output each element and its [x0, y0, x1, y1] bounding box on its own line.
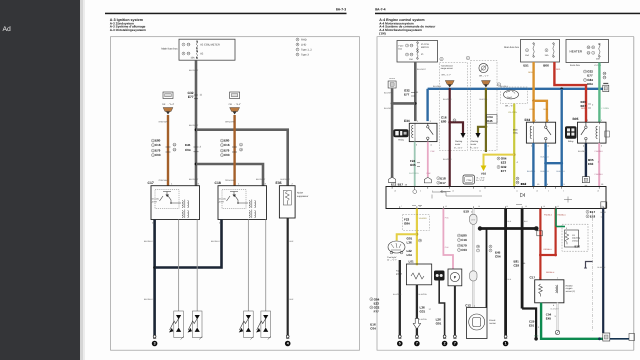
relay E34 [404, 119, 437, 146]
ignition coil C17 [148, 181, 200, 224]
dashed group box (sensor 2) [471, 61, 498, 151]
svg-text:Starting: Starting [471, 140, 479, 143]
node orange junction [532, 99, 535, 102]
svg-text:16: 16 [452, 190, 454, 193]
svg-text:“Fuel tight”: “Fuel tight” [387, 256, 397, 259]
svg-text:IG: IG [201, 53, 204, 56]
left page header rule [105, 13, 347, 15]
main fuse box (left page) [161, 39, 235, 60]
wire RED link [540, 254, 555, 256]
svg-text:20A: 20A [596, 57, 600, 60]
wire ORN/WHT to C18 [233, 115, 235, 186]
connector label C16/E80 [441, 116, 456, 124]
svg-text:E77: E77 [188, 95, 194, 99]
svg-text:Knock: Knock [489, 319, 496, 322]
svg-text:RED/BLU: RED/BLU [558, 214, 567, 217]
wire PNK E34 to ECM [427, 142, 429, 177]
svg-text:LT GRN: LT GRN [602, 107, 610, 110]
svg-text:7: 7 [401, 205, 402, 208]
wire ORN branch to E63 pin3 [534, 101, 547, 122]
connector (trans range sensor) [445, 81, 454, 88]
svg-text:E79: E79 [155, 149, 161, 153]
svg-text:CO: CO [572, 234, 575, 237]
svg-text:BLK/BLU: BLK/BLU [541, 170, 550, 173]
svg-text:COM: COM [466, 179, 471, 182]
svg-text:BLK/RED: BLK/RED [443, 158, 452, 161]
ECM connector pin (PNK) [424, 177, 431, 183]
svg-text:C17: C17 [148, 181, 154, 185]
svg-text:IG COIL METER: IG COIL METER [201, 44, 220, 47]
svg-text:BLK/ORN: BLK/ORN [393, 293, 402, 296]
svg-text:8A-7-4: 8A-7-4 [375, 8, 385, 12]
svg-text:B06: B06 [543, 64, 549, 68]
svg-text:Or → “L-7”: Or → “L-7” [387, 258, 397, 261]
circled labels G32/E77/G84/E84 [584, 70, 607, 87]
wire BLK/BLU B05 to connector [585, 143, 587, 176]
svg-text:OR→“L-7”: OR→“L-7” [442, 74, 452, 77]
off-page connector L-08 [229, 92, 241, 115]
svg-text:E23: E23 [501, 161, 507, 165]
dashed group box (cam sensor) [501, 87, 528, 104]
ground ground G7b [452, 335, 458, 346]
svg-text:3: 3 [420, 190, 421, 193]
svg-text:E18: E18 [590, 214, 596, 218]
connector label E81/C29 [514, 260, 527, 268]
svg-text:B05: B05 [573, 117, 579, 121]
connector box on red wire [537, 231, 543, 236]
svg-text:4: 4 [432, 190, 433, 193]
svg-text:14: 14 [601, 215, 603, 218]
ECM pin ticks bottom [400, 206, 603, 208]
svg-text:motor: motor [455, 143, 461, 146]
connector (sensor 2) [481, 81, 490, 88]
circled labels G04/E23/G32/F77 (bottom left) [370, 297, 380, 330]
ECM pin ticks top [392, 187, 599, 189]
connector label L22/L04 [407, 249, 413, 257]
spark plug [169, 311, 184, 340]
heated oxygen sensor C17 [530, 276, 576, 307]
svg-text:O→“A-1”: O→“A-1” [454, 146, 463, 149]
svg-text:BLK/YEL: BLK/YEL [480, 98, 489, 101]
noise suppressor E35 [276, 181, 309, 218]
relay E63 (main relay) [513, 118, 556, 147]
right page frame edge [632, 37, 635, 351]
svg-text:C16: C16 [224, 143, 230, 147]
svg-text:E77: E77 [587, 74, 593, 78]
svg-text:BLK/WHT: BLK/WHT [189, 178, 199, 181]
wire BLK/RED branch to starting motor [450, 122, 463, 133]
node black-green junction [534, 337, 538, 341]
svg-text:YEL/GRN: YEL/GRN [508, 111, 517, 114]
svg-text:8A-7-3: 8A-7-3 [336, 8, 346, 12]
svg-text:2: 2 [538, 326, 539, 329]
connector label C04/E45 [487, 115, 498, 124]
circled letter groups [440, 57, 443, 60]
wire BLK/BLU C17 ground [153, 220, 156, 336]
svg-text:• • •: • • • [390, 77, 395, 81]
wire ORN to E63 pin1 [532, 101, 534, 122]
wire GRN O2 signal rail [541, 303, 603, 339]
spark plug [188, 311, 203, 340]
svg-text:range sensor: range sensor [441, 67, 453, 70]
camshaft position sensor [504, 90, 519, 107]
wire RED/BLU ECM drop [554, 209, 556, 256]
node yellow branch [513, 153, 516, 156]
svg-text:Noise: Noise [297, 192, 304, 195]
svg-text:PNK: PNK [431, 150, 436, 153]
ground ground G7 [414, 335, 420, 346]
connector labels E80/C16/E79/C03 (left) [152, 139, 177, 158]
connector labels E80/C16/E79/C03 (below ECM) [458, 234, 493, 253]
node gray junction [414, 102, 417, 105]
svg-text:L36: L36 [407, 240, 413, 244]
wire BLK/BLU C18 link [155, 220, 222, 268]
svg-text:15A: 15A [191, 56, 196, 59]
svg-text:BLK/BLU: BLK/BLU [144, 240, 153, 243]
wire gray to ECM E17-19 [391, 103, 394, 177]
wire WHT/GRN E34 to ECM [414, 142, 416, 187]
svg-text:E63: E63 [588, 162, 594, 166]
svg-text:23: 23 [419, 205, 421, 208]
svg-text:E35: E35 [276, 181, 282, 185]
svg-text:ORN/WHT: ORN/WHT [159, 179, 170, 182]
harness connector [163, 108, 173, 115]
svg-text:adjusting: adjusting [572, 237, 580, 240]
svg-text:Heated: Heated [566, 285, 574, 288]
svg-text:→ “A-4”: → “A-4” [167, 103, 175, 106]
svg-text:A-3 Ontstekingssysteem: A-3 Ontstekingssysteem [110, 28, 146, 32]
svg-text:OR: OR [229, 103, 233, 106]
svg-text:Main: Main [513, 129, 519, 132]
high-tension cord [247, 220, 249, 312]
svg-text:IG COIL: IG COIL [152, 198, 160, 201]
svg-text:Relay: Relay [568, 140, 574, 143]
svg-text:sensor: sensor [489, 322, 496, 325]
svg-text:BLK/BLU: BLK/BLU [578, 150, 587, 153]
svg-text:WHT/GRN: WHT/GRN [409, 172, 419, 175]
svg-text:C04: C04 [185, 148, 191, 152]
ECM (engine control module) [386, 187, 607, 209]
svg-text:24: 24 [479, 190, 481, 193]
camera/solenoid icon [434, 271, 445, 281]
svg-text:C04: C04 [370, 327, 376, 331]
svg-text:C16: C16 [155, 143, 161, 147]
svg-text:BLK/WHT: BLK/WHT [384, 92, 394, 95]
wire ORN/WHT to C17 [167, 115, 169, 186]
svg-text:Type 3: Type 3 [301, 54, 309, 57]
svg-text:E80: E80 [155, 139, 161, 143]
svg-text:ORN: ORN [530, 108, 535, 111]
fuel gauge box [396, 264, 432, 285]
svg-text:11: 11 [516, 190, 518, 193]
svg-text:BLK/WHT: BLK/WHT [384, 107, 394, 110]
svg-text:E12: E12 [391, 182, 397, 186]
svg-text:14: 14 [601, 205, 603, 208]
svg-text:E63: E63 [525, 118, 531, 122]
harness connector [230, 108, 240, 115]
continuation arrow on wire [413, 319, 420, 330]
node green-navy junction [598, 337, 601, 340]
connector label C29/E01 low [529, 320, 539, 330]
svg-text:2: 2 [444, 342, 446, 346]
wire BLK/BLU E63-2 to ECM [532, 143, 534, 186]
connector label E45/C04 (middle) [185, 143, 202, 152]
svg-text:L01: L01 [409, 259, 415, 263]
svg-text:7: 7 [416, 342, 418, 346]
svg-text:sensor (F): sensor (F) [566, 290, 576, 293]
wire BLK noise suppressor ground [287, 218, 289, 335]
svg-text:5: 5 [563, 190, 564, 193]
svg-text:BLK/WHT: BLK/WHT [417, 68, 427, 71]
svg-text:E01: E01 [529, 324, 535, 328]
svg-text:YEL/RED: YEL/RED [419, 217, 428, 220]
circled labels E18/E17 [437, 176, 446, 185]
svg-text:PNK/BLK: PNK/BLK [544, 214, 553, 217]
wire BLK main ground 2 [521, 209, 524, 309]
svg-text:PNK/BLK: PNK/BLK [595, 150, 604, 153]
svg-text:ORN/WHT: ORN/WHT [225, 121, 236, 124]
svg-text:LHD: LHD [301, 44, 306, 47]
svg-text:IG COIL: IG COIL [219, 198, 227, 201]
svg-text:E19: E19 [464, 210, 470, 214]
svg-text:BLK/BLU: BLK/BLU [557, 170, 566, 173]
wire BLK bus [480, 227, 536, 230]
svg-text:RED/BLU: RED/BLU [544, 248, 553, 251]
off-page connector (BLK/WHT) [388, 77, 396, 89]
svg-text:OR→“L-7”: OR→“L-7” [479, 74, 489, 77]
svg-text:HEATER: HEATER [570, 50, 583, 54]
svg-text:E45: E45 [185, 143, 191, 147]
circled labels G04/E23/G32/E77 [497, 157, 519, 174]
svg-text:C12: C12 [465, 303, 471, 307]
ground ground G5 [397, 335, 403, 346]
wire LT GRN heater to B05 [598, 63, 600, 123]
transmission range sensor [441, 64, 454, 76]
wire BLK/ORN fuel gauge ground [416, 285, 418, 335]
svg-text:Main fuse box: Main fuse box [504, 46, 520, 49]
svg-text:ORN/WHT: ORN/WHT [159, 121, 170, 124]
svg-text:G01: G01 [436, 322, 442, 326]
svg-text:IG: IG [421, 53, 424, 56]
svg-text:5: 5 [399, 342, 401, 346]
svg-text:20: 20 [525, 205, 527, 208]
node yellow branch to cluster [416, 233, 419, 236]
connector label L36/G31 [420, 305, 432, 313]
blue bus end connector [603, 83, 609, 91]
wire BLK/WHT fuse to E34 [414, 62, 417, 121]
node red junctions [539, 254, 542, 257]
spark plug [239, 311, 254, 340]
svg-text:ASSY: ASSY [152, 200, 158, 203]
connector label G32/E77 [187, 91, 202, 99]
svg-text:G84: G84 [404, 221, 410, 225]
svg-text:BLK: BLK [290, 240, 295, 243]
svg-text:15A: 15A [545, 54, 549, 57]
svg-text:C17: C17 [530, 276, 536, 280]
wire BLK/BLU to E34 [426, 89, 428, 121]
svg-text:E34: E34 [404, 119, 410, 123]
wire branch to C18 pin3 [196, 164, 263, 186]
svg-text:motor: motor [471, 143, 477, 146]
svg-text:E16: E16 [575, 245, 581, 249]
svg-text:Transmission: Transmission [441, 64, 454, 67]
svg-text:BLK/ORN: BLK/ORN [419, 318, 428, 321]
svg-text:7: 7 [454, 342, 456, 346]
svg-text:E17: E17 [440, 181, 446, 185]
svg-text:BLK/BLU: BLK/BLU [598, 266, 606, 269]
svg-text:PNK/BLK: PNK/BLK [595, 173, 604, 176]
svg-text:BLK/ORN: BLK/ORN [419, 293, 428, 296]
svg-text:RED: RED [556, 68, 561, 71]
dashed group box (transmission range sensor) [440, 63, 468, 151]
pressure sensor (P) [448, 269, 462, 286]
navy elbow symbol [586, 262, 593, 269]
svg-text:BLK/BLU: BLK/BLU [211, 240, 220, 243]
wire BLK pressure sensor ground [454, 286, 456, 335]
svg-text:19: 19 [394, 190, 396, 193]
svg-text:19: 19 [597, 190, 599, 193]
svg-text:E17: E17 [590, 210, 596, 214]
svg-text:BLK/R: BLK/R [601, 211, 607, 214]
svg-text:C04: C04 [495, 255, 501, 259]
wire BLK/RED to ECM [449, 88, 451, 187]
svg-text:E77: E77 [404, 92, 410, 96]
svg-text:C03: C03 [155, 153, 161, 157]
svg-text:BLK/BLU: BLK/BLU [541, 156, 550, 159]
svg-text:BLK/WHT: BLK/WHT [189, 69, 199, 72]
fuse box (right page) [397, 41, 438, 63]
wire PNK ECM to pressure sensor [443, 209, 453, 270]
svg-text:IG-COIL: IG-COIL [421, 43, 430, 46]
shielded wire to knock sensor [470, 209, 477, 308]
wire BLK shield drop to knock sensor [486, 229, 488, 308]
high-tension cord [196, 220, 198, 312]
svg-text:C03: C03 [461, 248, 467, 252]
svg-text:E45: E45 [487, 119, 493, 123]
arrow to starting motor 2 [475, 133, 480, 138]
wire ORN from E51 [532, 62, 534, 101]
svg-text:RHD: RHD [301, 39, 307, 42]
wire PNK/BLK B05 to ECM [598, 143, 600, 186]
svg-text:C16: C16 [461, 238, 467, 242]
wire BLK/BLU drop [561, 89, 563, 163]
wire BLK/BLU main bus [428, 88, 603, 90]
node BLK/BLU junction [153, 266, 156, 269]
node junction at y164 [195, 163, 198, 166]
svg-text:E12: E12 [521, 182, 527, 186]
bottom-right connector [603, 333, 610, 341]
left diagram frame [111, 37, 360, 351]
node blue bus junction [560, 87, 563, 90]
connector label G01/L36 [407, 236, 422, 244]
white ground wire from O2 sensor [551, 303, 560, 335]
wire BLK/YEL [485, 88, 487, 152]
svg-text:PNK: PNK [427, 172, 432, 175]
ground ground center [503, 335, 509, 346]
wire gray link [392, 102, 415, 105]
svg-text:C29: C29 [514, 264, 520, 268]
connector label L26/G01 [436, 318, 442, 326]
svg-text:E77: E77 [501, 169, 507, 173]
group boundary dash-dot [592, 212, 594, 332]
svg-text:Main fuse box: Main fuse box [161, 48, 178, 51]
svg-text:25: 25 [445, 205, 447, 208]
svg-text:BLK/BLU: BLK/BLU [500, 85, 509, 88]
svg-text:Starting: Starting [455, 140, 463, 143]
relay icon 2 [565, 126, 577, 143]
instrument cluster icon [387, 241, 405, 261]
ground ground G2 [442, 335, 448, 346]
wire BLK cluster ground [399, 260, 401, 335]
COM box [463, 175, 484, 184]
wire BLK to green rail [522, 309, 536, 339]
wire gray to off-page [391, 89, 394, 104]
svg-text:E80: E80 [224, 139, 230, 143]
wire BLK/BLU right rail [602, 209, 604, 334]
svg-text:(1/4): (1/4) [379, 32, 385, 36]
svg-text:BLK/WHT: BLK/WHT [189, 124, 199, 127]
connector labels E80/C16/E79/C03 (right) [221, 139, 243, 158]
svg-text:VSS: VSS [481, 173, 486, 176]
connector label G32/E77 (right page) [404, 89, 419, 97]
wire BLK/YEL branch [478, 127, 486, 133]
svg-text:Type 1, 2: Type 1, 2 [301, 49, 312, 52]
main relay icon [393, 129, 408, 141]
svg-text:oxygen: oxygen [566, 287, 574, 290]
spark plug [256, 311, 271, 340]
svg-text:suppressor: suppressor [297, 195, 309, 198]
svg-text:F77: F77 [374, 310, 380, 314]
svg-text:BLK/WHT: BLK/WHT [551, 308, 560, 311]
svg-text:E80: E80 [441, 119, 447, 123]
svg-text:E80: E80 [461, 234, 467, 238]
viewer sidebar [0, 0, 80, 360]
ground E2 left page [285, 335, 291, 346]
svg-text:Fuse box: Fuse box [570, 64, 581, 67]
svg-text:A-4 Motorbesturingssysteem: A-4 Motorbesturingssysteem [379, 28, 422, 32]
wire BLK icon ground [439, 281, 444, 336]
svg-text:GRN: GRN [534, 335, 539, 338]
svg-text:3: 3 [154, 342, 156, 346]
svg-text:BLK/BLU: BLK/BLU [144, 298, 153, 301]
wire RED ECM to O2 heater [539, 209, 541, 281]
wire branch to noise suppressor [196, 130, 288, 186]
green stub from ECM to CO resistor [555, 209, 557, 227]
off-page connector below B05 [582, 177, 589, 187]
legend RHD/LHD/type [296, 38, 312, 57]
svg-text:E79: E79 [461, 244, 467, 248]
svg-text:L04: L04 [407, 253, 413, 257]
svg-text:1: 1 [505, 342, 507, 346]
svg-text:OR: OR [162, 103, 166, 106]
svg-text:B07: B07 [581, 104, 587, 108]
svg-text:10: 10 [536, 190, 538, 193]
wire BLK/BLU link [546, 162, 562, 164]
svg-text:15A: 15A [409, 58, 413, 61]
circled labels E17/E18 (right) [586, 210, 607, 219]
heater fuse box [566, 40, 609, 63]
svg-text:Fuse: Fuse [399, 45, 405, 48]
svg-text:6: 6 [548, 190, 549, 193]
svg-text:G31: G31 [420, 309, 426, 313]
svg-text:RED/BLU: RED/BLU [546, 271, 555, 274]
small box at frame edge [629, 334, 635, 341]
svg-text:E79: E79 [224, 149, 230, 153]
high-tension cord [265, 220, 267, 312]
off-page connector L-08 [162, 92, 174, 115]
svg-text:18: 18 [543, 205, 545, 208]
connector label B05/E63 [588, 158, 600, 166]
